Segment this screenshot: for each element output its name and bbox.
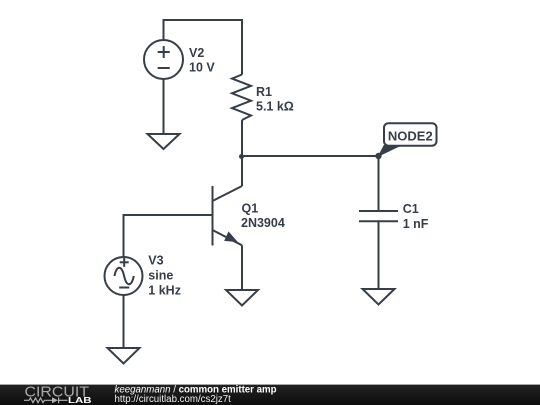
- wire C1 bottom lead: [378, 221, 380, 289]
- wire Q1 base to V3: [124, 215, 213, 257]
- svg-text:1 kHz: 1 kHz: [148, 284, 181, 298]
- svg-text:10 V: 10 V: [189, 61, 215, 75]
- voltage source V3: [105, 257, 143, 295]
- wire V2 top to R1 top: [164, 20, 243, 75]
- svg-text:C1: C1: [403, 202, 419, 216]
- capacitor C1: [359, 211, 398, 221]
- svg-text:V2: V2: [189, 46, 204, 60]
- transistor Q1: [213, 186, 243, 246]
- svg-text:1 nF: 1 nF: [403, 217, 429, 231]
- node junction dot (NODE2): [375, 153, 381, 159]
- svg-text:http://circuitlab.com/cs2jz7t: http://circuitlab.com/cs2jz7t: [115, 394, 232, 405]
- footer credit text: [115, 384, 277, 405]
- footer bar: [0, 385, 540, 405]
- wire V2 bottom lead: [163, 79, 165, 134]
- resistor R1: [232, 75, 251, 121]
- wire V3 bottom lead: [123, 295, 125, 348]
- svg-text:R1: R1: [256, 85, 272, 99]
- ground (below Q1 emitter): [226, 290, 258, 306]
- CircuitLab logo: [24, 385, 92, 405]
- wire R1 bottom to Q1 collector: [241, 120, 243, 186]
- svg-text:NODE2: NODE2: [388, 128, 433, 143]
- ground (below C1): [363, 289, 395, 305]
- net flag NODE2: [378, 123, 437, 157]
- svg-text:Q1: Q1: [242, 201, 259, 215]
- svg-text:LAB: LAB: [68, 396, 92, 405]
- svg-text:sine: sine: [148, 268, 173, 282]
- ground (below V2): [148, 134, 180, 149]
- voltage source V2: [144, 40, 183, 79]
- wire collector node to NODE2: [242, 155, 379, 157]
- wire NODE2 to C1: [378, 156, 380, 211]
- svg-text:V3: V3: [148, 254, 163, 268]
- ground (below V3): [108, 348, 140, 364]
- node junction dot (collector): [239, 154, 244, 159]
- svg-text:5.1 kΩ: 5.1 kΩ: [256, 99, 294, 113]
- svg-text:2N3904: 2N3904: [241, 216, 285, 230]
- wire Q1 emitter lead: [241, 245, 243, 290]
